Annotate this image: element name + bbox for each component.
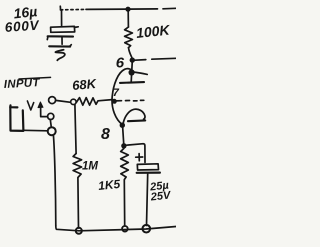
plate of V1 (120, 63, 144, 83)
resistor R4 100K lead + zigzag (125, 11, 133, 58)
capacitor C1 16u/600V plates (47, 26, 78, 44)
wire ground rail bottom (56, 226, 176, 231)
svg-text:600V: 600V (4, 18, 40, 35)
wire tip to 68K (56, 100, 71, 102)
wire output to next stage (135, 58, 176, 60)
junction envelope entry dot (129, 69, 135, 75)
junction C2 to rail (143, 225, 151, 233)
junction plate/output node (130, 57, 135, 62)
capacitor C2 25u plus sign (136, 154, 143, 161)
wire jack body to sleeve (24, 129, 48, 132)
capacitor C2 25u plates (137, 164, 160, 226)
capacitor C1 16u/600V lead (61, 10, 63, 25)
junction 1K5 to rail (122, 226, 128, 232)
junction 1M to rail (76, 228, 82, 234)
wire cathode down (123, 128, 124, 144)
wire to bypass cap (126, 144, 145, 163)
cathode of V1 (123, 109, 145, 123)
ground symbol (filter cap) (49, 45, 71, 61)
wire switch to sleeve (50, 120, 51, 128)
svg-text:1M: 1M (82, 161, 98, 173)
grid of V1 dashed (116, 99, 144, 102)
junction cathode RC node (121, 143, 126, 148)
junction B+ node (125, 7, 130, 12)
wire B+ top rail (60, 6, 176, 10)
svg-text:25V: 25V (149, 189, 172, 203)
junction grid-leak loop node (71, 99, 76, 104)
junction cathode node (120, 123, 125, 128)
resistor R3 1M lead + zigzag (73, 105, 82, 228)
jack tip contact (49, 97, 56, 104)
svg-text:68K: 68K (72, 76, 99, 93)
jack sleeve contact (48, 127, 56, 135)
jack tip spring arrow (38, 102, 47, 117)
resistor R2 1K5 zigzag (121, 148, 129, 225)
label INPUT (4, 77, 51, 91)
svg-text:1K5: 1K5 (97, 177, 121, 193)
resistor R1 68K zigzag (76, 98, 112, 106)
svg-text:8: 8 (101, 126, 110, 143)
wire sleeve down to ground rail (53, 135, 55, 226)
junction grid node (112, 99, 117, 104)
input jack J1 body (10, 101, 33, 131)
triode V1 envelope (112, 69, 147, 125)
svg-text:100K: 100K (135, 22, 171, 42)
jack switch contact (48, 113, 54, 119)
